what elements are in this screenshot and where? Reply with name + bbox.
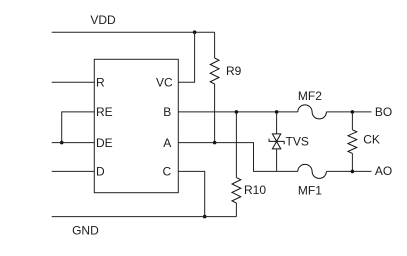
svg-text:CK: CK <box>363 133 380 147</box>
wire A net to AO <box>326 170 371 172</box>
junction dot C/GND <box>203 215 207 219</box>
svg-text:VDD: VDD <box>90 13 116 27</box>
svg-text:D: D <box>96 165 105 179</box>
wire CK lower lead <box>351 153 353 171</box>
junction dot RE/DE <box>60 141 64 145</box>
wire B net to BO <box>326 111 371 113</box>
diode TVS lower triangle <box>272 142 280 149</box>
wire TVS upper lead <box>276 112 278 134</box>
wire TVS lower lead <box>276 149 278 172</box>
svg-text:A: A <box>163 136 171 150</box>
svg-text:RE: RE <box>96 105 113 119</box>
ferrite bead MF2 <box>298 105 327 119</box>
junction dot TVS top <box>275 110 279 114</box>
junction dot R10/B <box>235 110 239 114</box>
diode TVS bar with bent ends <box>269 139 284 145</box>
junction dot CK top <box>351 110 355 114</box>
wire CK upper lead <box>351 112 353 130</box>
svg-text:B: B <box>163 105 171 119</box>
junction dot CK bottom <box>351 170 355 174</box>
wire VDD rail <box>52 31 215 33</box>
svg-text:MF2: MF2 <box>298 89 322 103</box>
svg-text:R: R <box>96 75 105 89</box>
wire RE input <box>62 112 95 143</box>
svg-text:VC: VC <box>156 75 173 89</box>
wire GND rail <box>52 216 237 218</box>
wire C output to ground <box>178 171 204 216</box>
wire B net <box>178 111 297 113</box>
svg-text:DE: DE <box>96 136 113 150</box>
resistor R10 <box>232 178 241 203</box>
wire DE input <box>52 142 95 144</box>
diode TVS upper triangle <box>272 134 280 141</box>
svg-text:R10: R10 <box>244 183 266 197</box>
wire R10 upper lead <box>235 112 237 178</box>
svg-text:R9: R9 <box>226 64 242 78</box>
svg-text:MF1: MF1 <box>298 183 322 197</box>
junction dot R9/A <box>213 141 217 145</box>
resistor R9 <box>210 58 219 84</box>
svg-text:AO: AO <box>375 164 392 178</box>
resistor CK <box>348 130 357 154</box>
wire R9 lower lead <box>214 84 216 143</box>
junction dot VDD/VC <box>193 30 197 34</box>
svg-text:C: C <box>163 165 172 179</box>
wire R input <box>52 81 95 83</box>
svg-text:BO: BO <box>375 105 392 119</box>
wire VC to VDD rail <box>178 32 194 82</box>
IC U1 body <box>94 59 178 192</box>
svg-text:GND: GND <box>72 224 99 238</box>
wire D input <box>52 170 95 172</box>
wire R10 lower lead <box>235 203 237 217</box>
ferrite bead MF1 <box>298 164 327 178</box>
wire A net with step down <box>178 143 297 172</box>
svg-text:TVS: TVS <box>286 135 309 149</box>
wire R9 upper lead <box>214 32 216 58</box>
